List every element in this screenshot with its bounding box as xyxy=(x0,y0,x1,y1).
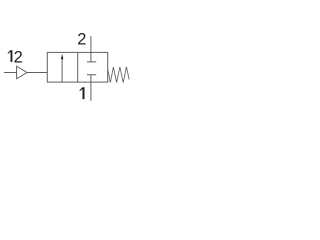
label 12 xyxy=(8,50,13,62)
pilot actuator triangle 12 xyxy=(17,66,27,79)
spring return xyxy=(108,67,129,83)
2/2-way pneumatic valve schematic xyxy=(0,0,135,135)
wire pilot line to valve body xyxy=(27,72,47,74)
wire pilot line left segment xyxy=(4,72,17,74)
wire port 1 xyxy=(90,82,92,101)
label 1 xyxy=(80,87,85,99)
blocked port T top (right chamber) xyxy=(87,52,96,62)
svg-text:2: 2 xyxy=(14,48,23,66)
arrow flow path stem (left chamber) xyxy=(61,57,63,82)
blocked port T bottom (right chamber) xyxy=(87,75,96,82)
svg-text:2: 2 xyxy=(77,30,86,48)
valve body outer box xyxy=(47,52,107,82)
valve body divider xyxy=(77,52,79,82)
arrowhead of flow path xyxy=(61,54,64,59)
wire port 2 xyxy=(90,36,92,52)
